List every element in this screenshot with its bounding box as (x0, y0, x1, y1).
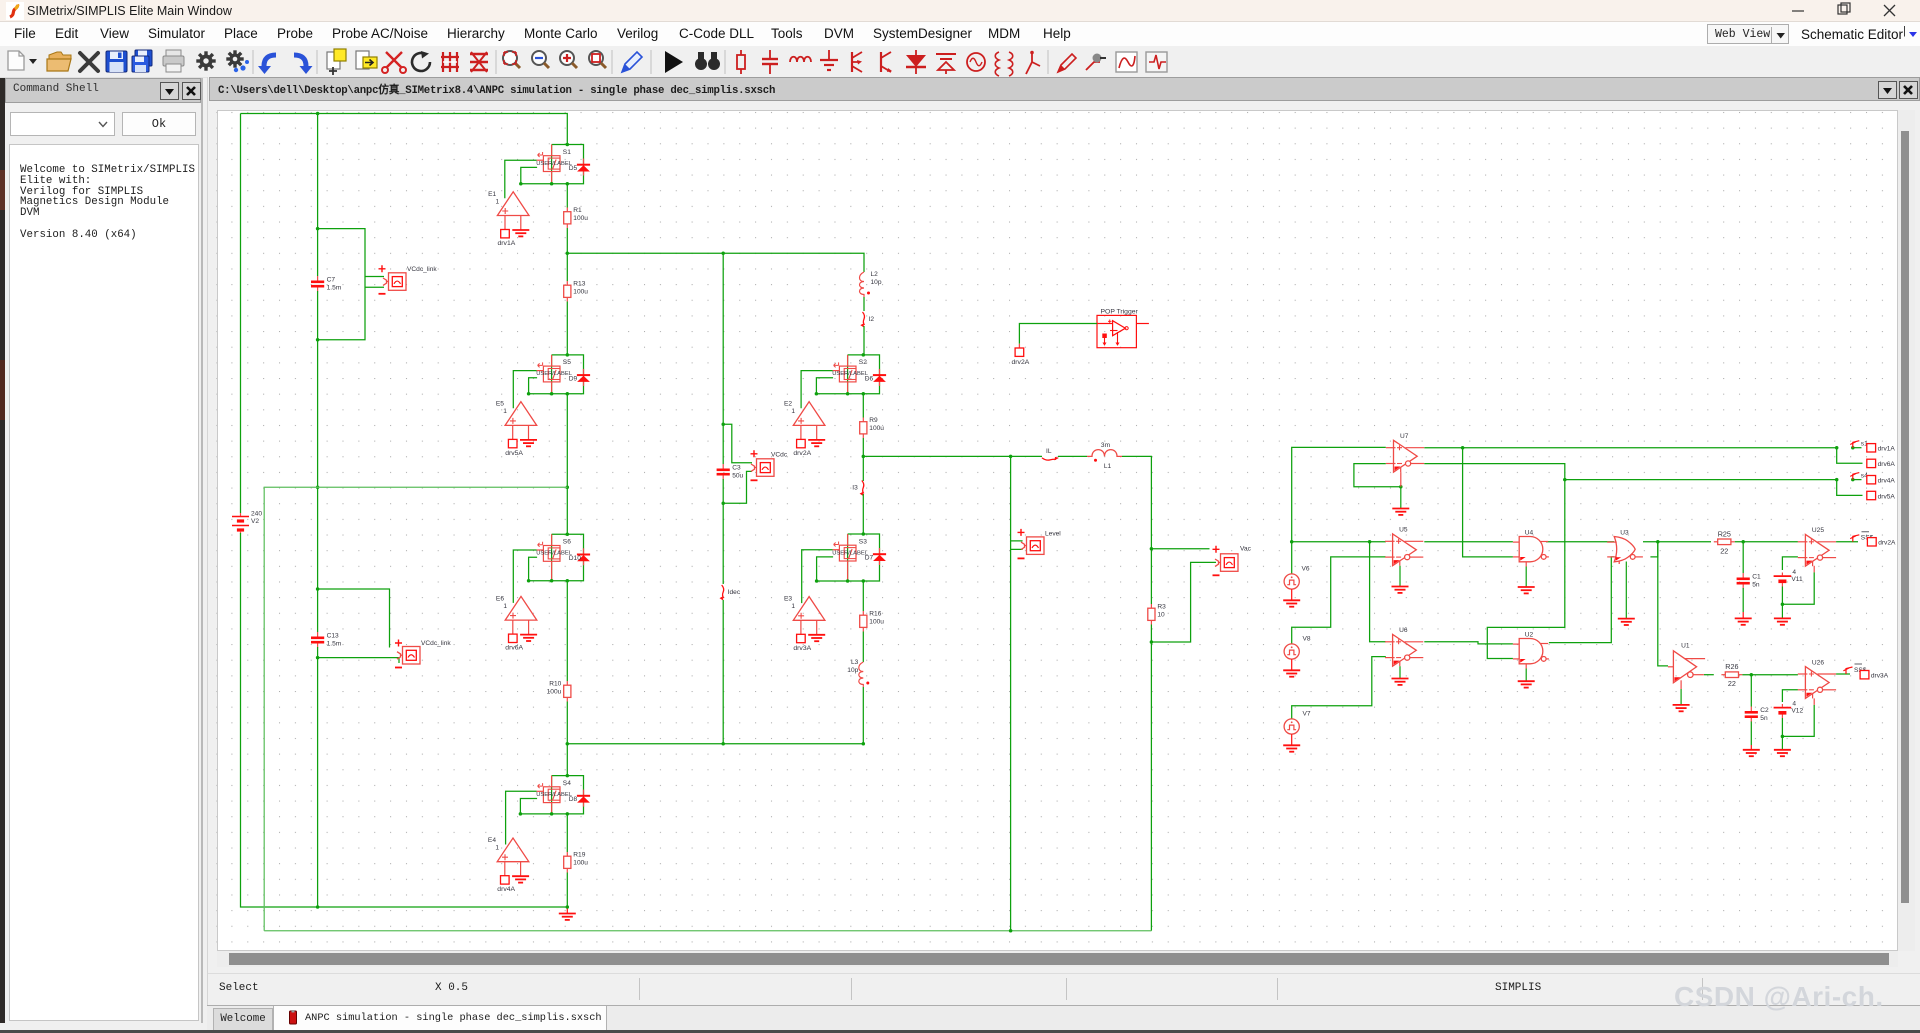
resistor R19 (564, 852, 571, 873)
wire (863, 326, 865, 355)
wire V6 riser (1291, 542, 1293, 574)
svg-text:drv2A: drv2A (1012, 359, 1030, 366)
diode D9 (577, 369, 590, 386)
voltage source V8 (1284, 644, 1299, 659)
ground (1774, 736, 1791, 756)
POP Trigger U10 (1097, 315, 1149, 347)
node (815, 532, 865, 583)
net flag s4 (1850, 473, 1859, 480)
terminal drv6A (509, 634, 518, 642)
svg-text:USER/LABEL: USER/LABEL (536, 551, 573, 557)
h scrollbar (217, 951, 1898, 967)
svg-text:U1: U1 (1681, 643, 1690, 650)
terminal drv2A (797, 439, 806, 447)
wire V11 fb (1782, 572, 1814, 604)
wire (1058, 455, 1087, 457)
svg-text:D6: D6 (865, 376, 874, 383)
resistor R1 (564, 208, 571, 229)
current probe IL (1042, 457, 1059, 461)
svg-text:100u: 100u (573, 215, 588, 222)
svg-text:U3: U3 (1620, 529, 1629, 536)
svg-text:5n: 5n (1752, 582, 1760, 589)
svg-text:R1: R1 (573, 207, 582, 214)
svg-text:VCdc: VCdc (771, 452, 788, 459)
wire U2 in2 path (1487, 480, 1565, 659)
node (1781, 735, 1785, 739)
wire (566, 394, 568, 535)
wire (1742, 588, 1744, 612)
svg-text:D9: D9 (569, 376, 578, 383)
ground (1673, 689, 1690, 711)
svg-text:S6: S6 (563, 539, 571, 546)
switch S1 (537, 145, 560, 184)
wire V12 top (1782, 690, 1798, 702)
svg-text:D5: D5 (569, 165, 578, 172)
svg-text:U5: U5 (1399, 527, 1408, 534)
canvas (217, 110, 1898, 951)
wire drv6A branch (1837, 448, 1863, 464)
wire (566, 873, 568, 908)
switch S5 (537, 355, 560, 394)
svg-text:drv4A: drv4A (497, 886, 515, 893)
node (1290, 540, 1745, 544)
terminal drv3A (1860, 671, 1869, 679)
svg-text:drv5A: drv5A (1878, 493, 1896, 500)
toolbar (0, 46, 1920, 78)
wire clamp rail (567, 743, 863, 745)
svg-text:U2: U2 (1525, 631, 1534, 638)
svg-text:1.5m: 1.5m (327, 285, 342, 292)
wire VCdc_link box (318, 229, 365, 340)
wire drv4A stub (1853, 479, 1862, 481)
wire neutral loop (264, 487, 567, 931)
svg-text:E4: E4 (488, 837, 496, 844)
svg-text:22: 22 (1728, 679, 1736, 688)
svg-text:drv6A: drv6A (505, 645, 523, 652)
wire VCdc_link2 box (318, 589, 390, 648)
svg-text:E2: E2 (784, 401, 792, 408)
inductor L1 (1087, 450, 1122, 462)
resistor R10 (564, 681, 571, 702)
svg-text:1: 1 (495, 845, 499, 852)
node (1563, 478, 1855, 482)
comparator U26 (1798, 667, 1836, 699)
svg-text:10p: 10p (847, 667, 858, 674)
wire mid rail y542 d (1643, 541, 1711, 543)
wire probe stubs (365, 276, 384, 278)
node (721, 501, 725, 505)
svg-text:POP Trigger: POP Trigger (1101, 309, 1139, 316)
svg-text:drv6A: drv6A (1878, 461, 1896, 468)
svg-text:1: 1 (496, 198, 500, 205)
probe VCdc_link (379, 265, 407, 294)
wire source return (529, 557, 538, 581)
svg-text:I3: I3 (852, 485, 858, 492)
svg-text:USER/LABEL: USER/LABEL (536, 371, 573, 377)
svg-text:240: 240 (251, 511, 262, 518)
wire source return (816, 378, 833, 394)
svg-text:10: 10 (1157, 612, 1165, 619)
svg-text:S3: S3 (859, 538, 867, 545)
wire cap rail 2 (317, 291, 319, 632)
wire (1010, 549, 1012, 930)
svg-text:V6: V6 (1302, 566, 1310, 573)
wire U2 to U3 (1549, 557, 1614, 643)
current probe Idec (720, 585, 724, 601)
wire (862, 687, 864, 744)
wire gate drive (513, 371, 536, 409)
wire probe- return (723, 471, 752, 503)
logic gate U3 (1607, 537, 1643, 565)
ground (512, 230, 529, 236)
wire (566, 814, 568, 852)
ground (1518, 669, 1535, 688)
svg-text:USER/LABEL: USER/LABEL (536, 161, 573, 167)
current probe I2 (860, 312, 864, 328)
switch S4 (537, 776, 560, 814)
wire (1150, 625, 1152, 931)
wire U1 drop (1658, 542, 1668, 666)
wire mid rail y542 (1292, 541, 1386, 543)
net flag SS$ (1850, 535, 1859, 542)
ground (1392, 487, 1409, 515)
controlled source E6 (505, 596, 537, 634)
ground (559, 907, 576, 920)
wire C3 branch upper (722, 253, 724, 464)
wire (722, 503, 724, 584)
svg-text:100u: 100u (573, 860, 588, 867)
svg-text:Idec: Idec (728, 589, 741, 596)
terminal drv2A (1015, 344, 1024, 357)
resistor R25 (1714, 529, 1735, 555)
terminal drv5A (508, 439, 517, 447)
svg-text:E5: E5 (496, 401, 504, 408)
current probe I3 (860, 481, 864, 497)
svg-text:drv1A: drv1A (498, 240, 516, 247)
wire U1 out (1704, 674, 1714, 676)
svg-text:10p: 10p (871, 279, 882, 286)
svg-text:S4: S4 (563, 780, 571, 787)
voltage source V6 (1284, 574, 1299, 589)
wire bottom rail (264, 930, 1151, 932)
svg-text:drv2A: drv2A (1878, 540, 1896, 547)
capacitor C2 (1745, 707, 1758, 723)
svg-text:L1: L1 (1104, 463, 1112, 470)
svg-text:drv5A: drv5A (505, 450, 523, 457)
svg-text:50u: 50u (732, 473, 743, 480)
node (721, 252, 725, 256)
diode D8 (577, 790, 590, 807)
SS overline 2 (1855, 663, 1863, 665)
svg-text:C2: C2 (1760, 707, 1769, 714)
svg-text:USER/LABEL: USER/LABEL (832, 371, 869, 377)
ground (1283, 659, 1300, 677)
svg-text:E1: E1 (488, 191, 496, 198)
wire (862, 581, 864, 611)
switch S6 (537, 534, 560, 581)
ground (520, 440, 537, 446)
svg-text:C7: C7 (327, 277, 336, 284)
wire probe+ branch (723, 424, 752, 463)
svg-text:VCdc_link: VCdc_link (421, 640, 451, 647)
wire source return (529, 378, 538, 394)
wire S3 cell box (817, 534, 880, 581)
node (1009, 455, 1153, 551)
svg-text:drv2A: drv2A (793, 450, 811, 457)
wire drv1A stub (1853, 447, 1862, 449)
wire net A rail right (1424, 447, 1836, 449)
svg-text:R25: R25 (1718, 529, 1731, 538)
svg-text:S2: S2 (859, 359, 867, 366)
net flag SS$ (1843, 667, 1852, 674)
node (519, 774, 569, 816)
resistor R13 (564, 281, 571, 302)
node (566, 485, 570, 489)
wire (862, 632, 864, 663)
svg-text:R19: R19 (573, 852, 585, 859)
wire phase A rail (567, 253, 864, 272)
node (316, 485, 320, 659)
wire (722, 479, 724, 503)
resistor R9 (860, 418, 867, 439)
net flag s1 (1850, 441, 1859, 448)
terminal drv1A (1867, 444, 1876, 452)
svg-text:100u: 100u (573, 289, 588, 296)
svg-text:5n: 5n (1760, 715, 1768, 722)
wire (1750, 722, 1752, 746)
wire gate drive (506, 791, 537, 844)
svg-text:V8: V8 (1303, 636, 1311, 643)
wire (566, 581, 568, 681)
controlled source E2 (793, 402, 825, 440)
wire (1122, 456, 1151, 604)
svg-text:drv4A: drv4A (1878, 478, 1896, 485)
wire V11 bottom (1781, 587, 1783, 605)
ground (1518, 567, 1535, 594)
wire cap rail 3 (317, 647, 319, 907)
status bar (208, 973, 1920, 1004)
svg-text:1: 1 (503, 603, 507, 610)
svg-text:USER/LABEL: USER/LABEL (832, 550, 869, 556)
svg-text:S1: S1 (563, 149, 571, 156)
svg-text:1: 1 (791, 603, 795, 610)
wire (566, 184, 568, 208)
wire U26 pin (1813, 698, 1815, 705)
svg-text:1: 1 (791, 408, 795, 415)
wire (862, 394, 864, 418)
resistor R26 (1721, 662, 1742, 688)
voltage source V2 (232, 513, 249, 534)
title bar (0, 0, 1920, 22)
diode D7 (873, 548, 886, 565)
wire U6 to U2 (1424, 642, 1513, 644)
wire cap rail (317, 114, 319, 277)
ground (1392, 566, 1409, 593)
wire (1011, 541, 1023, 550)
wire (722, 600, 724, 744)
wire (862, 494, 864, 534)
ground (1774, 604, 1791, 625)
wire gate drive (505, 160, 537, 198)
switch S3 (833, 534, 856, 581)
node (566, 742, 570, 746)
inverter U1 (1668, 651, 1705, 689)
diode D10 (577, 548, 590, 565)
ground (1392, 666, 1409, 685)
svg-text:L3: L3 (851, 659, 859, 666)
svg-text:1: 1 (503, 408, 507, 415)
wire Vac+ branch (1151, 548, 1209, 550)
logic gate U4 (1513, 537, 1549, 567)
svg-text:U4: U4 (1525, 529, 1534, 536)
node (527, 533, 569, 583)
svg-text:R16: R16 (869, 611, 881, 618)
svg-text:I2: I2 (869, 316, 875, 323)
svg-text:IL: IL (1046, 448, 1052, 455)
wire mid rail y542 c (1546, 541, 1614, 543)
wire (1742, 674, 1798, 676)
wire left rail upper (240, 114, 242, 514)
voltage source V7 (1284, 719, 1299, 734)
terminal drv2A (1867, 538, 1876, 546)
ground (1735, 612, 1752, 625)
svg-text:drv3A: drv3A (1871, 673, 1889, 680)
svg-text:100u: 100u (869, 619, 884, 626)
wire V12 fb (1782, 705, 1814, 737)
wire mid rail y542 b (1424, 541, 1513, 543)
wire net A rail left (1292, 447, 1386, 541)
node (527, 353, 569, 395)
ground (1618, 562, 1635, 626)
svg-text:U25: U25 (1812, 527, 1824, 534)
wire Level branch (1011, 456, 1023, 541)
diode D5 (577, 159, 590, 176)
controlled source E1 (497, 192, 529, 230)
svg-text:100u: 100u (547, 689, 562, 696)
ground (512, 876, 529, 882)
left dark strip (0, 78, 5, 1023)
wire output rail (863, 455, 1042, 457)
svg-text:V7: V7 (1303, 711, 1311, 718)
wire C2 drop (1750, 675, 1752, 707)
wire U25 out (1836, 541, 1858, 543)
wire source return (520, 799, 537, 814)
terminal drv5A (1867, 491, 1876, 499)
wire S2 cell box (816, 355, 879, 394)
svg-text:E3: E3 (784, 596, 792, 603)
svg-text:100u: 100u (869, 425, 884, 432)
wire S5 cell box (529, 355, 584, 394)
controlled source E5 (505, 402, 537, 440)
wire gate drive (801, 371, 833, 409)
svg-text:C3: C3 (732, 465, 741, 472)
svg-text:C1: C1 (1752, 574, 1761, 581)
comparator U6 (1385, 634, 1423, 666)
wire V11 top (1782, 557, 1798, 570)
wire Vac- return (1151, 562, 1216, 642)
svg-text:V2: V2 (251, 518, 259, 525)
node (1009, 929, 1013, 933)
capacitor C1 (1737, 573, 1750, 589)
probe VCdc (751, 450, 775, 480)
wire S1 cell box (521, 145, 584, 184)
svg-text:drv1A: drv1A (1878, 446, 1896, 453)
comparator U5 (1385, 534, 1423, 566)
inductor L3 (859, 662, 870, 687)
wire source return (521, 167, 537, 183)
svg-text:D8: D8 (569, 796, 578, 803)
controlled source E3 (793, 597, 825, 635)
svg-text:drv3A: drv3A (793, 645, 811, 652)
svg-text:U6: U6 (1399, 627, 1408, 634)
capacitor C7 (311, 276, 324, 292)
terminal drv4A (1867, 476, 1876, 484)
svg-text:R13: R13 (573, 281, 585, 288)
ground (808, 635, 825, 641)
node (1461, 446, 1855, 450)
wire left rail lower (241, 533, 568, 907)
v scrollbar (1898, 110, 1915, 951)
svg-text:E6: E6 (496, 595, 504, 602)
svg-text:3m: 3m (1101, 442, 1111, 449)
node (721, 742, 865, 746)
node (862, 455, 866, 459)
svg-text:Vac: Vac (1240, 546, 1252, 553)
node (316, 905, 320, 909)
wire gate drive (802, 550, 833, 603)
voltage source V11 (1774, 573, 1792, 587)
node (566, 905, 570, 909)
wire top rail (241, 114, 568, 145)
svg-text:D10: D10 (569, 555, 581, 562)
probe Vac (1213, 546, 1239, 576)
wire y479 rail (1565, 479, 1837, 481)
svg-text:C13: C13 (327, 633, 339, 640)
wire V12 bottom (1781, 718, 1783, 736)
command shell panel (5, 78, 203, 1023)
wire U7 feedback (1354, 464, 1401, 487)
menu bar (0, 22, 1920, 46)
svg-text:D7: D7 (865, 555, 874, 562)
wire probe2 bottom (318, 658, 399, 663)
comparator U25 (1798, 534, 1836, 566)
ground (520, 635, 537, 641)
controlled source E4 (497, 838, 529, 876)
wire U26 out (1836, 673, 1850, 675)
wire source return (817, 557, 834, 581)
svg-text:L2: L2 (871, 271, 879, 278)
svg-text:U26: U26 (1812, 659, 1824, 666)
ground (808, 440, 825, 446)
SS overline (1862, 531, 1870, 533)
resistor R3 (1148, 604, 1155, 625)
svg-text:U7: U7 (1400, 433, 1409, 440)
svg-text:S5: S5 (563, 359, 571, 366)
wire (862, 438, 864, 481)
wire (566, 302, 568, 355)
wire U3 out riser (1650, 542, 1657, 557)
diode D6 (873, 369, 886, 386)
terminal drv6A (1867, 459, 1876, 467)
node (721, 423, 725, 427)
node (815, 353, 865, 395)
wire (566, 228, 568, 281)
wire S4 cell box (520, 776, 583, 814)
watermark (1674, 981, 1884, 1013)
node (1399, 485, 1403, 489)
wire U7 pin (1400, 472, 1402, 487)
wire U7 out net (1424, 464, 1565, 480)
